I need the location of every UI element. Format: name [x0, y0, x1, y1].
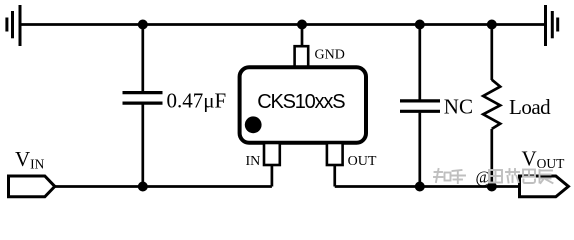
char xin — [506, 169, 519, 183]
char si — [523, 170, 535, 184]
svg-text:OUT: OUT — [348, 154, 377, 169]
node A junction dot top-left — [138, 20, 148, 30]
node E junction dot bottom-left — [138, 182, 148, 192]
pin GND of U1 — [295, 46, 309, 67]
node D junction dot top Load — [487, 20, 497, 30]
node G junction dot bottom Load — [487, 182, 497, 192]
svg-text:0.47μF: 0.47μF — [167, 89, 227, 113]
wire capacitor C1 upper lead — [141, 25, 144, 92]
char hu — [451, 170, 466, 183]
capacitor C1 0.47uF — [123, 93, 163, 104]
wire IN pin down — [271, 165, 274, 187]
ground left — [7, 5, 20, 46]
char zhi — [434, 169, 451, 182]
op-amp U1 regulator CKS10xxS body — [240, 67, 366, 143]
char chen — [540, 170, 553, 183]
svg-text:GND: GND — [315, 48, 345, 63]
svg-text:IN: IN — [246, 154, 261, 169]
wire OUT pin down — [333, 165, 336, 187]
svg-text:CKS10xxS: CKS10xxS — [257, 91, 345, 113]
wire resistor R1 upper lead — [490, 25, 493, 81]
wire capacitor C2 upper lead — [418, 25, 421, 100]
wire capacitor C1 lower lead — [141, 105, 144, 187]
capacitor C2 NC — [400, 101, 440, 111]
wire resistor R1 lower lead — [490, 129, 493, 187]
resistor R1 Load — [483, 80, 500, 129]
svg-text:NC: NC — [444, 95, 473, 119]
node C junction dot top NC — [415, 20, 425, 30]
svg-text:Load: Load — [509, 95, 551, 119]
pin IN of U1 — [264, 143, 280, 165]
watermark zhihu text approximation — [434, 168, 553, 187]
port VIN connector — [9, 176, 55, 197]
wire top rail — [20, 23, 546, 26]
char guo — [489, 170, 502, 183]
node F junction dot bottom NC — [415, 182, 425, 192]
wire bottom left rail — [54, 185, 272, 188]
pin OUT of U1 — [327, 143, 343, 165]
wire GND pin lead — [301, 25, 304, 49]
wire capacitor C2 lower lead — [418, 113, 421, 187]
port VOUT connector — [520, 176, 569, 197]
pin-1 marker dot of U1 — [245, 116, 262, 133]
wire bottom right rail — [335, 185, 520, 188]
node B junction dot top GND — [297, 20, 307, 30]
ground right — [546, 5, 558, 46]
